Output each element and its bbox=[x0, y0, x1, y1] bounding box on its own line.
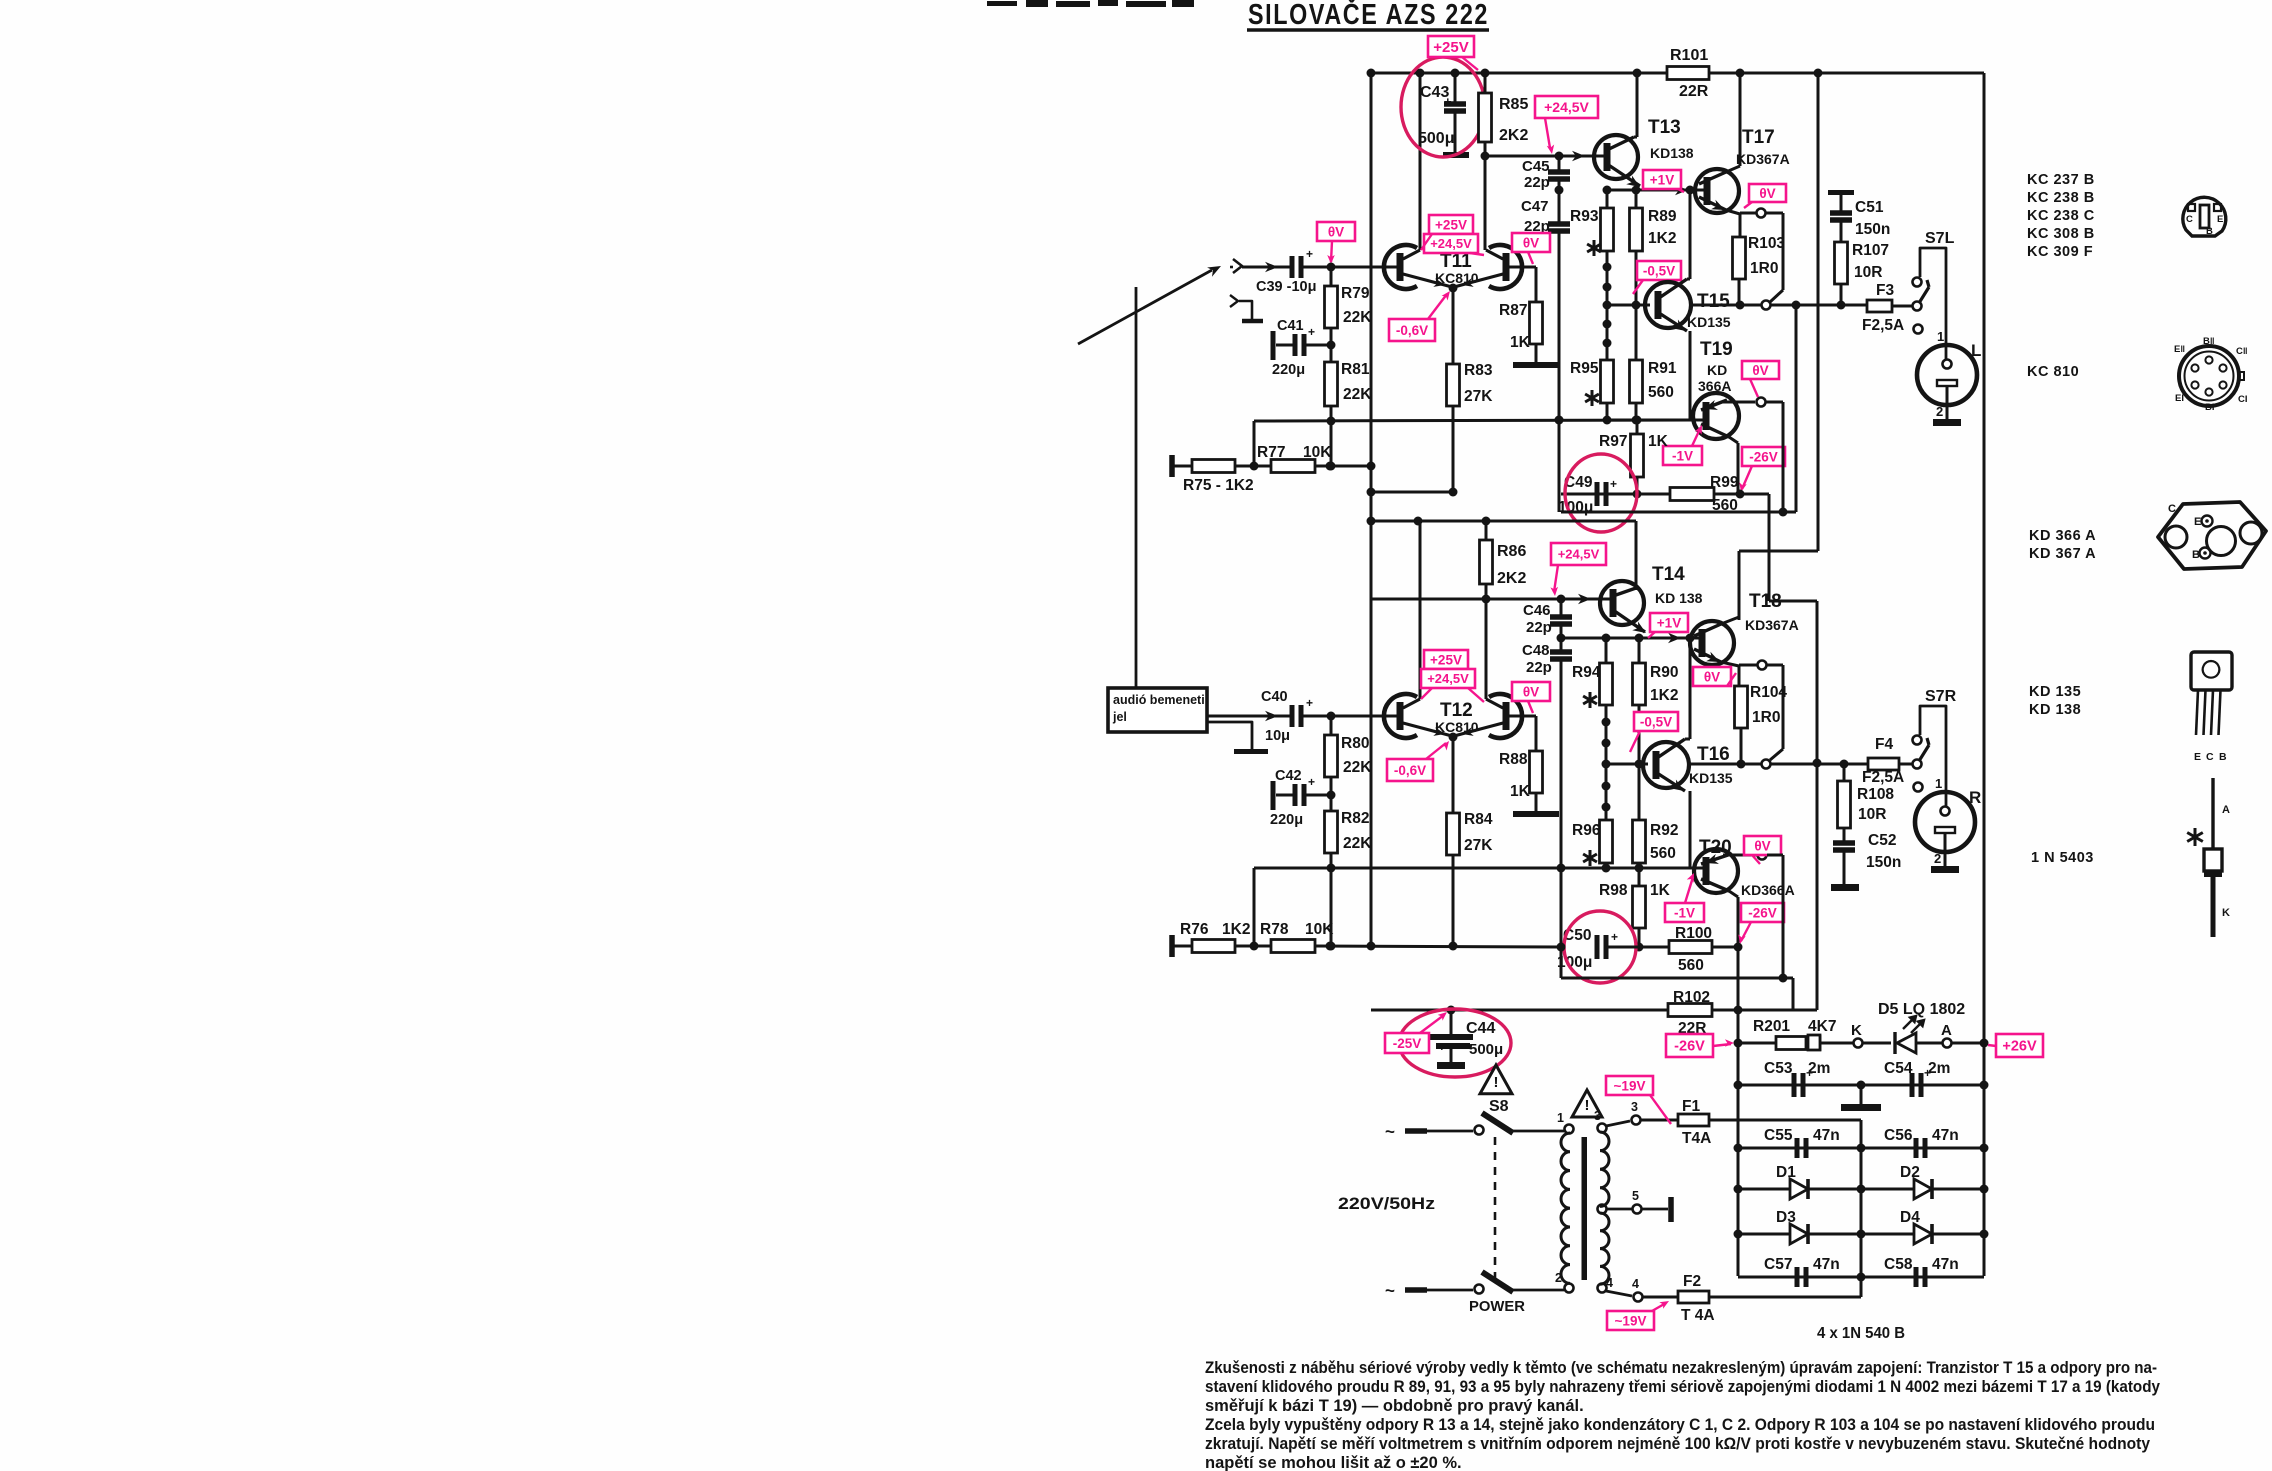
svg-text:220μ: 220μ bbox=[1272, 362, 1305, 378]
capacitor C55 bbox=[1795, 1138, 1800, 1158]
svg-text:R: R bbox=[1969, 788, 1981, 807]
svg-text:3: 3 bbox=[1594, 1109, 1601, 1123]
pink label +25V top bbox=[1428, 36, 1474, 57]
svg-text:4: 4 bbox=[1632, 1277, 1639, 1291]
capacitor C47 bbox=[1558, 190, 1561, 224]
capacitor C53 bbox=[1792, 1073, 1797, 1097]
transistor T11 dual KC810 bbox=[1384, 245, 1417, 289]
svg-text:K: K bbox=[1851, 1022, 1862, 1039]
svg-text:+: + bbox=[1308, 775, 1315, 789]
svg-text:5: 5 bbox=[1632, 1189, 1639, 1203]
svg-text:4 x 1N 540 B: 4 x 1N 540 B bbox=[1817, 1325, 1905, 1342]
svg-text:C52: C52 bbox=[1868, 832, 1896, 849]
node R102 line y=1010 bbox=[1371, 1009, 1817, 1012]
svg-text:R95: R95 bbox=[1570, 360, 1599, 377]
resistor R100 bbox=[1606, 946, 1669, 949]
svg-text:4K7: 4K7 bbox=[1808, 1018, 1836, 1035]
transformer primary winding bbox=[1565, 1125, 1574, 1134]
node +25V top rail (upper) bbox=[1371, 72, 1984, 75]
svg-text:22K: 22K bbox=[1343, 759, 1372, 776]
svg-text:-0,5V: -0,5V bbox=[1640, 714, 1672, 729]
svg-text:audió bemeneti: audió bemeneti bbox=[1113, 693, 1205, 707]
svg-text:22p: 22p bbox=[1526, 619, 1552, 636]
svg-text:C51: C51 bbox=[1855, 199, 1884, 216]
wire C48-C50 vertical x=1561 bbox=[1560, 868, 1563, 978]
svg-text:KD 367 A: KD 367 A bbox=[2029, 546, 2096, 562]
wire left frame vertical x=1371 bbox=[1370, 73, 1373, 946]
resistor R94 bbox=[1600, 663, 1613, 705]
diode D2 bbox=[1914, 1179, 1932, 1199]
svg-text:C56: C56 bbox=[1884, 1127, 1913, 1144]
pink circle around C44 bbox=[1399, 1009, 1511, 1077]
resistor R91 bbox=[1630, 360, 1643, 403]
svg-text:+: + bbox=[1306, 696, 1313, 710]
svg-text:S7L: S7L bbox=[1925, 230, 1955, 247]
svg-text:3: 3 bbox=[1631, 1100, 1638, 1114]
transistor T15 bbox=[1607, 304, 1650, 307]
node -26V line y=494 with C49 bbox=[1561, 493, 1769, 496]
svg-text:2m: 2m bbox=[1928, 1060, 1950, 1077]
svg-text:T20: T20 bbox=[1699, 837, 1732, 858]
resistor R201 bbox=[1776, 1037, 1820, 1050]
svg-text:KD 138: KD 138 bbox=[1655, 590, 1703, 606]
wire T12 left collector bbox=[1419, 521, 1422, 699]
svg-text:KD 135: KD 135 bbox=[2029, 684, 2081, 700]
svg-text:C41: C41 bbox=[1277, 318, 1304, 334]
pink label +26V bbox=[1996, 1034, 2043, 1057]
svg-text:C39 -10μ: C39 -10μ bbox=[1256, 279, 1316, 295]
resistor R103 bbox=[1733, 237, 1746, 279]
svg-text:+: + bbox=[1438, 1039, 1446, 1054]
svg-text:-26V: -26V bbox=[1748, 905, 1777, 920]
svg-text:+24,5V: +24,5V bbox=[1558, 547, 1600, 562]
transistor T19 bbox=[1693, 393, 1739, 439]
svg-text:+: + bbox=[1306, 247, 1313, 261]
svg-text:C55: C55 bbox=[1764, 1127, 1793, 1144]
svg-text:C46: C46 bbox=[1523, 602, 1551, 619]
transistor T17 bbox=[1695, 169, 1739, 213]
svg-text:S8: S8 bbox=[1489, 1098, 1509, 1115]
resistor R75 with terminal bbox=[1169, 455, 1175, 477]
wire T13 collector to rail bbox=[1636, 73, 1639, 137]
ground mid filter bbox=[1860, 1085, 1863, 1104]
capacitor C44 bbox=[1450, 1010, 1453, 1034]
svg-text:zkratují. Napětí se měří voltm: zkratují. Napětí se měří voltmetrem s vn… bbox=[1205, 1435, 2151, 1453]
svg-text:1K2: 1K2 bbox=[1650, 687, 1678, 704]
resistor R93 bbox=[1601, 208, 1614, 251]
resistor R97 bbox=[1636, 420, 1639, 434]
svg-text:T18: T18 bbox=[1749, 591, 1782, 612]
resistor R92 bbox=[1633, 820, 1646, 863]
svg-text:+25V: +25V bbox=[1430, 652, 1462, 667]
svg-text:C42: C42 bbox=[1275, 768, 1302, 784]
svg-text:KD366A: KD366A bbox=[1741, 882, 1795, 898]
svg-text:F3: F3 bbox=[1876, 282, 1894, 299]
capacitor C48 bbox=[1560, 638, 1563, 652]
node bridge row D3 D4 y=1234 bbox=[1738, 1233, 1984, 1236]
resistor R86 bbox=[1485, 521, 1488, 540]
svg-text:A: A bbox=[2222, 804, 2230, 816]
svg-text:SILOVAČE AZS 222: SILOVAČE AZS 222 bbox=[1248, 0, 1489, 31]
svg-text:KD367A: KD367A bbox=[1736, 151, 1790, 167]
svg-text:Zcela byly vypuštěny odpory R: Zcela byly vypuštěny odpory R 13 a 14, s… bbox=[1205, 1416, 2155, 1434]
svg-text:jel: jel bbox=[1112, 710, 1127, 724]
wire T16 collector up to +1V line bbox=[1689, 638, 1692, 739]
svg-text:+26V: +26V bbox=[2002, 1039, 2037, 1055]
wire C47-C49 vertical x=1560 bbox=[1558, 420, 1561, 512]
wire T20 emitter to loop bbox=[1767, 854, 1783, 857]
svg-text:1K: 1K bbox=[1648, 433, 1669, 450]
svg-text:F2,5A: F2,5A bbox=[1862, 769, 1904, 786]
svg-text:-0,6V: -0,6V bbox=[1396, 323, 1428, 338]
fuse F3 bbox=[1867, 300, 1892, 312]
svg-text:R89: R89 bbox=[1648, 208, 1677, 225]
transistor T18 bbox=[1690, 621, 1734, 665]
switch S8 dashed link bbox=[1494, 1137, 1497, 1282]
node output line lower y=764 bbox=[1690, 763, 1868, 766]
node +1V line lower y=638 bbox=[1561, 637, 1687, 640]
svg-text:500μ: 500μ bbox=[1418, 130, 1454, 147]
svg-text:KC 810: KC 810 bbox=[2027, 364, 2079, 380]
svg-text:KD 366 A: KD 366 A bbox=[2029, 528, 2096, 544]
svg-text:150n: 150n bbox=[1855, 221, 1890, 238]
capacitor C58 bbox=[1914, 1267, 1919, 1287]
svg-text:K: K bbox=[2222, 907, 2230, 919]
capacitor C42 bbox=[1271, 781, 1276, 810]
pink label -0,6V lower bbox=[1387, 759, 1433, 781]
fuse F2 bbox=[1678, 1291, 1709, 1303]
svg-text:napětí se mohou lišit až o ±20: napětí se mohou lišit až o ±20 %. bbox=[1205, 1454, 1462, 1471]
svg-text:27K: 27K bbox=[1464, 837, 1493, 854]
node base line T13 y=156 bbox=[1485, 155, 1600, 158]
svg-text:-1V: -1V bbox=[1674, 905, 1695, 920]
title underline bbox=[1247, 28, 1489, 31]
svg-text:θV: θV bbox=[1523, 235, 1539, 250]
switch S7L bbox=[1913, 302, 1922, 311]
wire T11 right collector bbox=[1484, 156, 1487, 250]
svg-text:θV: θV bbox=[1328, 224, 1344, 239]
svg-text:C47: C47 bbox=[1521, 198, 1549, 215]
wire T17 emitter node bbox=[1739, 214, 1742, 237]
svg-text:POWER: POWER bbox=[1469, 1298, 1525, 1315]
svg-text:L: L bbox=[1971, 341, 1981, 360]
svg-text:2: 2 bbox=[1934, 851, 1941, 866]
wire annotation vertical to audio box bbox=[1135, 287, 1138, 688]
svg-text:KD: KD bbox=[1707, 362, 1727, 378]
svg-text:-1V: -1V bbox=[1672, 448, 1693, 463]
wire C43 left branch to T11 collector bbox=[1419, 73, 1422, 250]
resistor R79 bbox=[1330, 267, 1333, 286]
resistor R95 bbox=[1601, 360, 1614, 403]
wire R103 bypass jumper bbox=[1766, 212, 1783, 215]
capacitor C40 bbox=[1290, 705, 1295, 727]
svg-text:R80: R80 bbox=[1341, 735, 1369, 752]
svg-text:R97: R97 bbox=[1599, 433, 1627, 450]
svg-text:D3: D3 bbox=[1776, 1209, 1796, 1226]
node feedback line y=868 lower bbox=[1254, 867, 1698, 870]
pink label 0V T12 right bbox=[1512, 682, 1550, 701]
svg-text:T14: T14 bbox=[1652, 564, 1685, 585]
wire corner x=1254 lower bbox=[1253, 868, 1256, 946]
svg-text:C: C bbox=[2168, 503, 2176, 515]
svg-text:BI: BI bbox=[2205, 402, 2215, 413]
svg-text:47n: 47n bbox=[1813, 1127, 1840, 1144]
package TO-126 view bbox=[2191, 652, 2232, 690]
wire loop lower y=978 bbox=[1561, 977, 1793, 980]
pink labels +25V +24,5V T12 bbox=[1424, 650, 1468, 669]
resistor R87 bbox=[1513, 266, 1536, 269]
pink label ~19V lower bbox=[1607, 1311, 1654, 1330]
node bridge row C57 C58 y=1277 bbox=[1738, 1276, 1984, 1279]
svg-text:E: E bbox=[2194, 516, 2201, 528]
ground below audio box bbox=[1207, 722, 1252, 749]
svg-text:22K: 22K bbox=[1343, 386, 1372, 403]
svg-text:C44: C44 bbox=[1466, 1020, 1495, 1037]
capacitor C56 bbox=[1914, 1138, 1919, 1158]
svg-text:150n: 150n bbox=[1866, 854, 1901, 871]
svg-text:C‖: C‖ bbox=[2236, 346, 2248, 357]
pink circle around C43 bbox=[1401, 57, 1485, 157]
terminal A bbox=[1943, 1039, 1952, 1048]
svg-text:1: 1 bbox=[1937, 329, 1944, 344]
input line lower from audio box bbox=[1207, 715, 1290, 718]
LED D5 bbox=[1863, 1042, 1891, 1045]
pink label 0V T19 bbox=[1742, 361, 1779, 379]
svg-text:T4A: T4A bbox=[1682, 1130, 1711, 1147]
pink label -26V upper bbox=[1742, 447, 1785, 466]
svg-text:B: B bbox=[2192, 549, 2200, 561]
svg-text:R91: R91 bbox=[1648, 360, 1677, 377]
input annotation arrow bbox=[1078, 270, 1212, 344]
node top line lower channel y=521 bbox=[1371, 520, 1636, 523]
transistor T16 bbox=[1606, 763, 1648, 766]
pink label +1V upper bbox=[1643, 170, 1681, 189]
wire R81 column to R77 node bbox=[1330, 421, 1333, 466]
svg-text:KD367A: KD367A bbox=[1745, 617, 1799, 633]
svg-text:T16: T16 bbox=[1697, 744, 1730, 765]
svg-text:R77: R77 bbox=[1257, 444, 1285, 461]
warning triangle 1 bbox=[1480, 1065, 1512, 1094]
fuse F4 bbox=[1868, 758, 1899, 770]
transformer secondary windings bbox=[1598, 1124, 1607, 1133]
resistor R77 bbox=[1271, 460, 1315, 473]
svg-text:560: 560 bbox=[1648, 384, 1674, 401]
wire T13 emitter to +1V line bbox=[1607, 164, 1640, 186]
svg-text:-0,5V: -0,5V bbox=[1643, 263, 1675, 278]
svg-text:CI: CI bbox=[2238, 394, 2248, 405]
svg-text:R79: R79 bbox=[1341, 285, 1370, 302]
svg-text:C54: C54 bbox=[1884, 1060, 1913, 1077]
pink label -1V upper bbox=[1663, 446, 1702, 465]
wire -26V zigzag upper bbox=[1768, 494, 1771, 601]
secondary bottom tap to F2 bbox=[1606, 1291, 1632, 1296]
svg-text:R93: R93 bbox=[1570, 208, 1599, 225]
wire R104 bypass jumper bbox=[1767, 664, 1783, 667]
svg-text:R88: R88 bbox=[1499, 751, 1528, 768]
svg-text:!: ! bbox=[1494, 1074, 1499, 1091]
pink label -26V supply bbox=[1666, 1034, 1713, 1057]
svg-text:směřují k bázi T 19) — obdobně: směřují k bázi T 19) — obdobně pro pravý… bbox=[1205, 1397, 1584, 1415]
pink label -26V lower bbox=[1741, 903, 1784, 922]
svg-text:KD135: KD135 bbox=[1689, 770, 1733, 786]
pink label +24,5V lower bbox=[1551, 543, 1606, 565]
package TO-18 top view bbox=[2183, 197, 2226, 236]
svg-text:A: A bbox=[1941, 1022, 1952, 1039]
svg-text:R92: R92 bbox=[1650, 822, 1678, 839]
svg-text:R75 - 1K2: R75 - 1K2 bbox=[1183, 477, 1254, 494]
svg-text:R99: R99 bbox=[1710, 474, 1739, 491]
wire T14 collector corner bbox=[1635, 521, 1638, 590]
svg-text:D1: D1 bbox=[1776, 1164, 1796, 1181]
svg-text:C: C bbox=[2186, 214, 2193, 225]
resistor R83 bbox=[1452, 287, 1455, 364]
svg-text:220V/50Hz: 220V/50Hz bbox=[1338, 1195, 1435, 1213]
svg-text:R96: R96 bbox=[1572, 822, 1601, 839]
input jack upper bbox=[1233, 259, 1242, 273]
svg-text:T15: T15 bbox=[1697, 291, 1730, 312]
svg-text:F2: F2 bbox=[1683, 1273, 1701, 1290]
node feedback line y=420/421 upper bbox=[1254, 420, 1697, 421]
svg-text:KD135: KD135 bbox=[1687, 314, 1731, 330]
svg-text:R83: R83 bbox=[1464, 362, 1493, 379]
svg-text:R87: R87 bbox=[1499, 302, 1527, 319]
svg-text:1: 1 bbox=[1935, 776, 1942, 791]
wire R90-R92 column bbox=[1638, 705, 1641, 820]
svg-text:θV: θV bbox=[1704, 669, 1720, 684]
svg-text:+: + bbox=[1308, 325, 1315, 339]
resistor R99 bbox=[1670, 488, 1714, 501]
svg-text:+1V: +1V bbox=[1657, 615, 1681, 630]
capacitor C57 bbox=[1795, 1267, 1800, 1287]
svg-text:10K: 10K bbox=[1305, 921, 1334, 938]
svg-text:F4: F4 bbox=[1875, 736, 1893, 753]
svg-text:stavení klidového proudu R 89,: stavení klidového proudu R 89, 91, 93 a … bbox=[1205, 1378, 2161, 1396]
audio input label box (audio bemeneti jel) bbox=[1108, 688, 1207, 732]
svg-text:22R: 22R bbox=[1679, 83, 1709, 100]
transistor T20 bbox=[1694, 849, 1738, 893]
diode D3 bbox=[1790, 1224, 1808, 1244]
svg-text:~19V: ~19V bbox=[1614, 1078, 1646, 1093]
wire R83 bottom to left frame bbox=[1371, 491, 1453, 494]
svg-text:+24,5V: +24,5V bbox=[1427, 671, 1469, 686]
svg-text:D2: D2 bbox=[1900, 1164, 1920, 1181]
wire T15 collector up to +1V line bbox=[1689, 190, 1692, 279]
diode D4 bbox=[1914, 1224, 1932, 1244]
svg-text:22K: 22K bbox=[1343, 835, 1372, 852]
capacitor C39 bbox=[1290, 256, 1295, 278]
pink label ~19V upper bbox=[1606, 1076, 1653, 1095]
ground for C43 bbox=[1443, 152, 1469, 158]
svg-text:22p: 22p bbox=[1526, 659, 1552, 676]
header fragment dashes (cut-off text SCHEMA ZAPOJENI) bbox=[987, 0, 1194, 7]
svg-text:KD138: KD138 bbox=[1650, 145, 1694, 161]
fuse F1 bbox=[1678, 1114, 1709, 1126]
svg-text:!: ! bbox=[1585, 1097, 1590, 1114]
svg-text:2K2: 2K2 bbox=[1499, 127, 1528, 144]
svg-text:D5 LQ 1802: D5 LQ 1802 bbox=[1878, 1001, 1965, 1018]
svg-text:1K2: 1K2 bbox=[1222, 921, 1250, 938]
svg-text:R101: R101 bbox=[1670, 47, 1708, 64]
ground R87 bbox=[1513, 362, 1559, 368]
node output line upper y=305 bbox=[1690, 304, 1867, 307]
svg-text:T19: T19 bbox=[1700, 339, 1733, 360]
capacitor C54 bbox=[1910, 1073, 1915, 1097]
resistor R101 bbox=[1667, 67, 1709, 80]
capacitor C49 bbox=[1595, 482, 1600, 506]
pink label 0V T18 bbox=[1693, 667, 1731, 686]
resistor R98 bbox=[1638, 868, 1641, 886]
svg-text:220μ: 220μ bbox=[1270, 812, 1303, 828]
svg-text:560: 560 bbox=[1650, 845, 1676, 862]
pink label 0V T11 right bbox=[1512, 233, 1550, 252]
svg-text:KC 237 B: KC 237 B bbox=[2027, 172, 2095, 188]
node base line T14 y=599 bbox=[1371, 598, 1606, 601]
node -26V supply line R201 bbox=[1738, 1042, 1776, 1045]
svg-text:C40: C40 bbox=[1261, 689, 1288, 705]
svg-text:KD 138: KD 138 bbox=[2029, 702, 2081, 718]
svg-text:22p: 22p bbox=[1524, 174, 1550, 191]
svg-text:-25V: -25V bbox=[1393, 1036, 1422, 1051]
svg-text:D4: D4 bbox=[1900, 1209, 1920, 1226]
svg-text:θV: θV bbox=[1759, 186, 1775, 201]
svg-text:R86: R86 bbox=[1497, 543, 1526, 560]
resistor R104 bbox=[1735, 686, 1748, 728]
svg-text:27K: 27K bbox=[1464, 388, 1493, 405]
svg-text:+25V: +25V bbox=[1435, 217, 1467, 232]
diode D1 bbox=[1790, 1179, 1808, 1199]
svg-text:1K: 1K bbox=[1510, 783, 1531, 800]
transformer core bbox=[1582, 1137, 1588, 1280]
node +1V line (upper) bbox=[1607, 189, 1694, 192]
svg-text:S7R: S7R bbox=[1925, 688, 1957, 705]
svg-text:KC 238 B: KC 238 B bbox=[2027, 190, 2095, 206]
pink label +24,5V upper bbox=[1535, 96, 1598, 118]
svg-text:1R0: 1R0 bbox=[1752, 709, 1780, 726]
svg-text:R78: R78 bbox=[1260, 921, 1289, 938]
svg-text:47n: 47n bbox=[1932, 1127, 1959, 1144]
svg-text:C57: C57 bbox=[1764, 1256, 1792, 1273]
svg-text:C: C bbox=[2206, 751, 2214, 763]
package KC810 bottom view bbox=[2179, 346, 2239, 406]
svg-text:2: 2 bbox=[1936, 404, 1943, 419]
svg-text:θV: θV bbox=[1754, 838, 1770, 853]
svg-text:+24,5V: +24,5V bbox=[1544, 99, 1589, 115]
svg-text:E‖: E‖ bbox=[2174, 344, 2185, 355]
resistor R102 bbox=[1668, 1004, 1712, 1017]
transistor T14 bbox=[1600, 581, 1644, 625]
svg-text:C45: C45 bbox=[1522, 158, 1550, 175]
svg-text:F1: F1 bbox=[1682, 1098, 1700, 1115]
warning triangle 2 bbox=[1572, 1090, 1602, 1117]
svg-text:KC 238 C: KC 238 C bbox=[2027, 208, 2095, 224]
svg-text:-26V: -26V bbox=[1749, 449, 1778, 464]
pink labels +25V +24,5V T11 bbox=[1429, 215, 1473, 234]
svg-text:500μ: 500μ bbox=[1469, 1041, 1503, 1058]
pink circle around C49 bbox=[1565, 454, 1637, 532]
svg-text:θV: θV bbox=[1752, 363, 1768, 378]
svg-text:E: E bbox=[2217, 214, 2223, 225]
wire F1 corner into bridge bbox=[1860, 1120, 1863, 1297]
wire corner x=1254 bbox=[1253, 421, 1256, 466]
svg-text:1K: 1K bbox=[1650, 882, 1671, 899]
svg-text:R82: R82 bbox=[1341, 810, 1369, 827]
capacitor C41 bbox=[1271, 331, 1276, 360]
svg-text:10R: 10R bbox=[1858, 806, 1886, 823]
svg-text:T 4A: T 4A bbox=[1681, 1307, 1715, 1324]
wire right bus vertical x=1984 from rail bbox=[1983, 73, 1986, 1276]
speaker connector L bbox=[1917, 345, 1977, 405]
node bias dot column (upper) bbox=[1606, 251, 1609, 360]
